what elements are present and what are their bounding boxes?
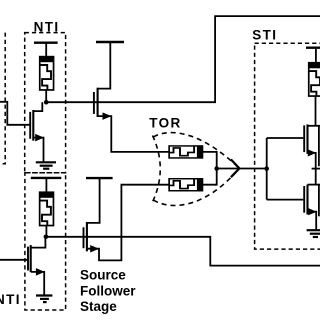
wire M3/M4 outputs joined to node D [203,152,217,185]
wire M2 bottom to node B [45,226,47,237]
memristor M4 (TOR bottom) [169,179,203,191]
transistor Q3 drain wire from VDD [98,42,111,89]
wire STI output stub [312,168,320,170]
TOR dashed outline top arc [154,133,240,169]
NTI block 1 dashed box [25,33,66,173]
svg-text:NTI: NTI [34,19,60,34]
svg-text:NTI: NTI [0,292,21,307]
transistor Q2 source [31,272,45,295]
node D [214,166,219,171]
transistor Q5 source arrow [308,149,316,156]
VDD bar (NTI block 2) [31,177,62,179]
transistor Q1 source arrow [35,134,44,142]
transistor Q4 channel [86,222,88,251]
svg-text:STI: STI [252,27,277,42]
node A [44,100,49,105]
wire VDD to memristor M5 [315,48,317,63]
transistor Q3 channel [97,88,99,117]
transistor Q3 source arrow [103,112,112,120]
svg-text:Stage: Stage [80,299,117,314]
VDD bar (source follower 1) [96,41,124,43]
transistor Q4 gate bar [83,227,85,248]
transistor Q3 gate bar [93,92,95,114]
wire node C to Q6 gate [267,199,304,201]
transistor Q6 source [308,212,317,230]
transistor Q6 gate bar [303,186,305,213]
STI dashed box (cut off at right edge) [255,43,320,249]
label Source Follower Stage [80,268,136,314]
input dashed box (cut off at left edge) [0,33,5,164]
wire M1 bottom to node A [45,91,47,103]
wire input B (from left edge) [0,259,27,261]
transistor Q1 channel [32,110,34,141]
wire VDD to memristor M2 [45,178,47,192]
memristor M2 (NTI block 2) [39,192,53,226]
transistor Q6 channel [306,185,308,215]
wire node C to Q5 gate [267,137,304,139]
transistor Q1 source [33,138,43,162]
wire node C vertical joining both gates [266,138,268,200]
transistor Q5 drain top line [308,125,320,127]
transistor Q4 source wire to TOR memristor M4 [87,185,169,261]
TOR dashed outline left arc [153,136,161,203]
svg-text:TOR: TOR [149,116,181,131]
transistor Q4 source arrow [90,245,99,253]
transistor Q2 source arrow [36,268,45,276]
TOR tip arrow strokes [231,159,240,177]
ground G3 (cut off at right edge) [307,230,320,237]
wire node A right, up at x=215, along top to right edge [46,16,320,102]
transistor Q6 drain top line [308,184,320,186]
node B [44,235,49,240]
memristor M1 (NTI block 1) [40,56,54,90]
TOR dashed outline bottom arc [154,168,240,205]
transistor Q2 drain [31,237,46,248]
transistor Q6 source arrow [308,208,316,215]
VDD bar (source follower 2) [86,177,113,179]
transistor Q1 gate bar [29,112,31,139]
VDD bar (NTI block 1) [34,42,58,44]
svg-text:Source: Source [80,268,126,283]
memristor M3 (TOR top) [169,146,203,158]
transistor Q2 gate bar [27,247,29,271]
transistor Q1 drain [33,102,42,111]
transistor Q4 drain wire from VDD [87,178,100,223]
node C [264,166,269,171]
svg-text:Follower: Follower [80,284,136,299]
ground G2 [36,296,52,303]
transistor Q3 source wire to TOR memristor M3 [98,116,169,152]
transistor Q5 gate bar [303,125,305,152]
ground G1 [36,162,56,168]
memristor M5 (STI, cut off at right edge) [309,63,320,97]
wire TOR output to STI input node C [217,168,267,170]
wire VDD to memristor M1 [45,43,47,57]
VDD bar (STI) [306,47,320,49]
wire node B right, down at x=210, along bottom to right edge [46,237,320,266]
cut-off vertical line right edge (Q5) [318,126,320,166]
cut-off vertical line right edge (Q6) [318,185,320,217]
transistor Q2 channel [30,245,32,272]
wire input A (stepped, from left edge) [0,102,29,125]
transistor Q5 channel [306,124,308,153]
transistor Q5 source [308,153,316,185]
NTI block 2 dashed box [25,173,66,310]
wire M5 bottom to transistor Q5 drain [315,97,317,126]
